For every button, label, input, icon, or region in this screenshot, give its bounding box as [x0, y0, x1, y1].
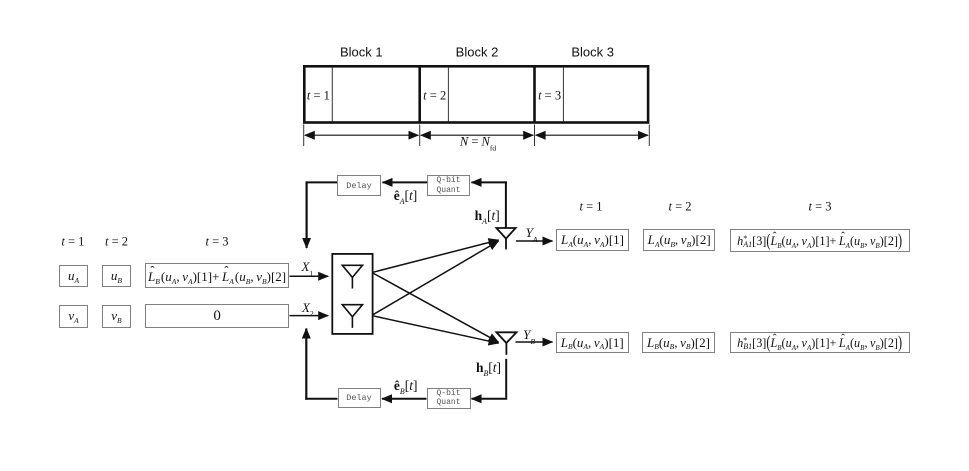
box v_B — [102, 305, 132, 328]
label h_A[t] — [475, 208, 500, 224]
label Block 1 — [340, 45, 383, 60]
feedback B: up arrow — [305, 329, 307, 400]
measure arrow block2 — [421, 134, 533, 136]
channel path Tx1 to RxB — [373, 273, 499, 342]
box Delay top — [337, 175, 381, 196]
feedback A: antenna A up line — [505, 181, 507, 227]
label t=1 in block1 — [307, 88, 330, 103]
feedback A: wire antennaA to Q-bit quant — [472, 181, 507, 183]
measure tick 3 — [534, 125, 536, 147]
label t=1 right — [579, 199, 602, 214]
box Lhat sum row1 — [145, 263, 290, 288]
rx antenna B — [496, 332, 516, 355]
box Delay bottom — [338, 388, 381, 408]
timeline outer frame — [304, 66, 648, 122]
channel path Tx1 to RxA — [373, 240, 499, 272]
tx antenna 1 — [342, 265, 362, 288]
tx antenna 2 — [342, 305, 362, 328]
box Q-bit Quant bottom — [427, 388, 471, 409]
label t=3 in block3 — [538, 88, 561, 103]
feedback A: down arrow — [306, 181, 308, 248]
box u_B — [102, 265, 132, 288]
thin cell divider block1 — [331, 67, 333, 122]
label t=1 left — [61, 235, 84, 250]
label e_B[t] — [394, 378, 418, 394]
measure tick 1 — [303, 125, 305, 147]
block divider thick 2 — [533, 66, 536, 123]
label t=3 left — [205, 235, 228, 250]
box h_B1 row2 t3 — [730, 332, 910, 354]
label Y_A — [526, 225, 538, 241]
measure arrow block3 — [536, 134, 648, 136]
wire X1 — [290, 275, 329, 277]
measure tick 2 — [419, 125, 421, 147]
label Y_B — [523, 327, 535, 343]
feedback A: wire Q-bit quant to Delay — [383, 181, 428, 183]
label t=3 right — [808, 199, 831, 214]
box h_A1 row1 t3 — [730, 229, 910, 252]
feedback B: wire Delay left — [305, 398, 337, 400]
box L_A row1 t1 — [556, 229, 628, 251]
wire Y_A — [516, 240, 553, 242]
box L_B row2 t1 — [556, 332, 629, 353]
thin cell divider block2 — [447, 67, 449, 122]
box zero row2 — [145, 304, 289, 328]
channel path Tx2 to RxA — [373, 241, 499, 315]
box L_B row2 t2 — [642, 332, 715, 353]
label t=2 left — [105, 235, 128, 250]
label X2 — [302, 300, 314, 316]
label t=2 in block2 — [423, 88, 446, 103]
feedback B: wire antennaB to Q-bit quant — [472, 398, 508, 400]
box v_A — [59, 305, 89, 328]
label N = N_fd — [460, 135, 496, 150]
label e_A[t] — [394, 188, 418, 204]
measure tick 4 — [648, 125, 650, 147]
rx antenna A — [496, 228, 515, 249]
label Block 3 — [571, 45, 614, 60]
wire Y_B — [516, 341, 553, 343]
box L_A row1 t2 — [643, 229, 715, 251]
wire X2 — [290, 315, 329, 317]
feedback B: wire Q-bit quant to Delay — [382, 398, 427, 400]
box u_A — [59, 265, 89, 288]
transmitter box — [332, 254, 372, 334]
measure arrow block1 — [305, 134, 418, 136]
feedback A: wire Delay left — [306, 181, 337, 183]
box Q-bit Quant top — [427, 175, 470, 196]
thin cell divider block3 — [562, 67, 564, 122]
label t=2 right — [668, 199, 691, 214]
label X1 — [301, 259, 313, 275]
feedback B: antenna B down line — [505, 359, 507, 398]
label h_B[t] — [476, 360, 501, 376]
label Block 2 — [456, 45, 499, 60]
block divider thick 1 — [418, 66, 421, 123]
channel path Tx2 to RxB — [373, 316, 499, 343]
